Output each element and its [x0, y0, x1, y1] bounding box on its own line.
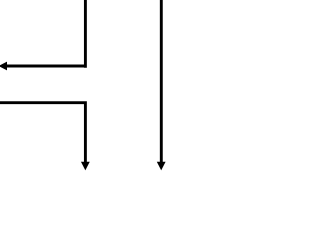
wire: straight vertical arrow on right from top edge to bottom: [160, 0, 163, 163]
wire: elbow arrow from top edge, down then left into left edge: [6, 0, 87, 68]
wire: elbow arrow from left edge, right then down to bottom: [0, 103, 85, 163]
arrowhead pointing down near bottom edge: [81, 162, 90, 171]
arrowhead pointing left, tip clipped at left edge: [0, 62, 7, 71]
arrowhead pointing down near bottom edge: [157, 162, 166, 171]
